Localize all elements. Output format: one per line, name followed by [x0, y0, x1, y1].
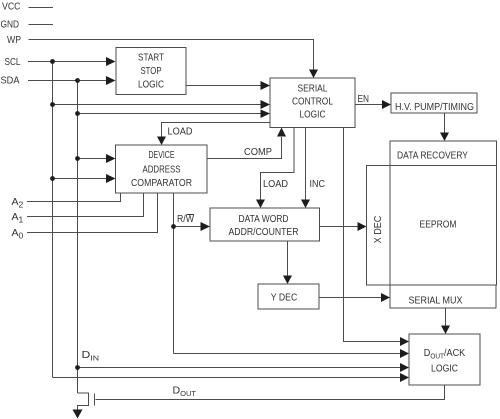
- arrow WP into serial control logic: [309, 70, 318, 79]
- svg-text:DEVICE: DEVICE: [149, 149, 175, 161]
- wire SCL into start stop logic: [28, 61, 107, 63]
- wire serial mux to dout/ack logic: [445, 308, 447, 326]
- wire DOUT from dout/ack logic to transistor gate: [96, 385, 445, 400]
- wire VCC stub: [29, 7, 54, 9]
- wire SCL to dout/ack logic: [53, 377, 401, 379]
- arrow start stop into serial control: [261, 81, 271, 90]
- wire INC serial control to data word addr/counter: [305, 128, 307, 200]
- wire SDA to serial control logic: [78, 113, 262, 115]
- box dout/ack logic: [409, 334, 480, 385]
- svg-text:LOGIC: LOGIC: [300, 109, 326, 121]
- wire R/W to dout/ack logic: [174, 353, 401, 355]
- box data recovery: [390, 141, 497, 166]
- svg-text:LOGIC: LOGIC: [431, 363, 458, 375]
- arrow SDA into start stop logic: [106, 76, 116, 85]
- box eeprom: [390, 166, 497, 286]
- svg-text:INC: INC: [310, 178, 326, 190]
- svg-text:STOP: STOP: [141, 65, 162, 77]
- arrow SDA into serial control: [261, 110, 271, 119]
- junction SCL to serial control: [50, 102, 55, 107]
- svg-text:WP: WP: [7, 34, 21, 46]
- arrow DIN into dout/ack: [400, 363, 409, 372]
- wire EN serial control to hv pump: [355, 104, 382, 106]
- svg-text:SDA: SDA: [1, 75, 20, 87]
- wire LOAD serial control to comparator: [162, 123, 271, 137]
- arrow INC into data word: [301, 200, 310, 209]
- wire WP to serial control logic top: [29, 40, 314, 71]
- transistor Q1 output mosfet channel: [78, 393, 89, 410]
- svg-text:LOAD: LOAD: [263, 178, 288, 190]
- box serial control logic: [270, 78, 355, 128]
- svg-text:VCC: VCC: [2, 1, 21, 13]
- svg-text:DIN: DIN: [82, 349, 100, 363]
- arrow serial mux into dout/ack: [441, 326, 450, 335]
- svg-text:X DEC: X DEC: [372, 215, 384, 243]
- arrow SCL into start stop logic: [106, 57, 116, 66]
- box serial mux: [390, 285, 496, 308]
- wire SDA vertical bus: [77, 81, 79, 394]
- wire COMP comparator to serial control logic: [207, 137, 282, 159]
- wire A1: [27, 193, 144, 217]
- svg-text:CONTROL: CONTROL: [292, 96, 333, 108]
- svg-text:LOGIC: LOGIC: [138, 79, 164, 91]
- svg-text:A2: A2: [12, 196, 24, 210]
- arrow R/W into dout/ack: [400, 349, 409, 358]
- wire DIN to dout/ack logic: [78, 367, 401, 369]
- svg-text:EN: EN: [358, 93, 370, 105]
- svg-text:DATA WORD: DATA WORD: [239, 213, 289, 225]
- wire data word to x dec: [320, 226, 358, 228]
- svg-text:ADDRESS: ADDRESS: [143, 164, 181, 176]
- arrow hv pump into data recovery: [440, 133, 449, 142]
- arrow LOAD into comparator top: [157, 137, 166, 146]
- junction SDA to comparator: [75, 156, 80, 161]
- junction SDA at SDA line: [75, 78, 80, 83]
- wire start stop logic to serial control logic: [186, 85, 261, 87]
- junction SCL at SCL line: [50, 59, 55, 64]
- svg-text:Y DEC: Y DEC: [271, 292, 298, 304]
- junction SDA to serial control: [75, 111, 80, 116]
- arrow SCL into comparator: [106, 174, 116, 183]
- svg-text:LOAD: LOAD: [168, 126, 193, 138]
- wire y dec to serial mux: [319, 297, 381, 299]
- svg-text:EEPROM: EEPROM: [420, 219, 457, 231]
- junction DIN: [75, 365, 80, 370]
- svg-text:COMP: COMP: [244, 146, 272, 158]
- box data word addr/counter: [210, 208, 320, 241]
- arrow SDA into comparator: [106, 154, 116, 163]
- wire R/W to data word addr/counter: [174, 226, 202, 228]
- junction SCL to comparator: [50, 176, 55, 181]
- svg-text:START: START: [138, 52, 164, 64]
- svg-text:SERIAL MUX: SERIAL MUX: [409, 295, 463, 307]
- svg-text:A1: A1: [12, 211, 24, 225]
- box device address comparator: [116, 145, 208, 193]
- arrow data word into x dec: [358, 222, 367, 231]
- arrow R/W into data word: [201, 222, 211, 231]
- wire hv pump to data recovery: [444, 113, 446, 133]
- svg-text:DOUT: DOUT: [173, 385, 197, 399]
- ground symbol under transistor: [73, 410, 83, 419]
- svg-text:ADDR/COUNTER: ADDR/COUNTER: [229, 226, 299, 238]
- wire A0: [27, 193, 158, 233]
- arrow serial control into dout/ack: [400, 337, 409, 346]
- svg-text:GND: GND: [1, 19, 20, 31]
- box start stop logic: [116, 48, 186, 95]
- junction R/W: [171, 224, 176, 229]
- arrow data word into y dec: [283, 276, 292, 285]
- svg-text:DOUT/ACK: DOUT/ACK: [424, 347, 466, 361]
- wire SDA into start stop logic: [28, 80, 107, 82]
- wire A2: [27, 193, 121, 202]
- wire LOAD serial control to data word addr/counter: [261, 128, 295, 200]
- svg-text:DATA RECOVERY: DATA RECOVERY: [397, 150, 468, 162]
- svg-text:COMPARATOR: COMPARATOR: [131, 177, 192, 189]
- box y dec: [258, 284, 319, 309]
- svg-text:A0: A0: [12, 227, 24, 241]
- arrow SCL into serial control: [261, 100, 271, 109]
- wire SDA to comparator: [78, 158, 108, 160]
- svg-text:H.V. PUMP/TIMING: H.V. PUMP/TIMING: [395, 101, 474, 113]
- arrow LOAD into data word: [256, 200, 265, 209]
- wire serial control to dout/ack logic: [344, 128, 401, 342]
- transistor Q1 gate bar: [94, 394, 96, 406]
- box x dec: [367, 166, 391, 286]
- wire R/W vertical from comparator: [173, 193, 175, 354]
- wire data word to y dec: [287, 241, 289, 276]
- arrow COMP into serial control bottom: [277, 128, 286, 137]
- arrow EN into hv pump: [382, 100, 391, 109]
- wire SCL vertical bus: [52, 62, 54, 378]
- wire SCL to comparator: [53, 178, 108, 180]
- wire SCL to serial control logic: [53, 104, 262, 106]
- arrow SCL into dout/ack: [400, 373, 409, 382]
- arrow y dec into serial mux: [381, 293, 390, 302]
- box hv pump/timing: [391, 93, 477, 113]
- wire GND stub: [29, 24, 54, 26]
- svg-text:SERIAL: SERIAL: [298, 83, 328, 95]
- svg-text:SCL: SCL: [5, 56, 21, 68]
